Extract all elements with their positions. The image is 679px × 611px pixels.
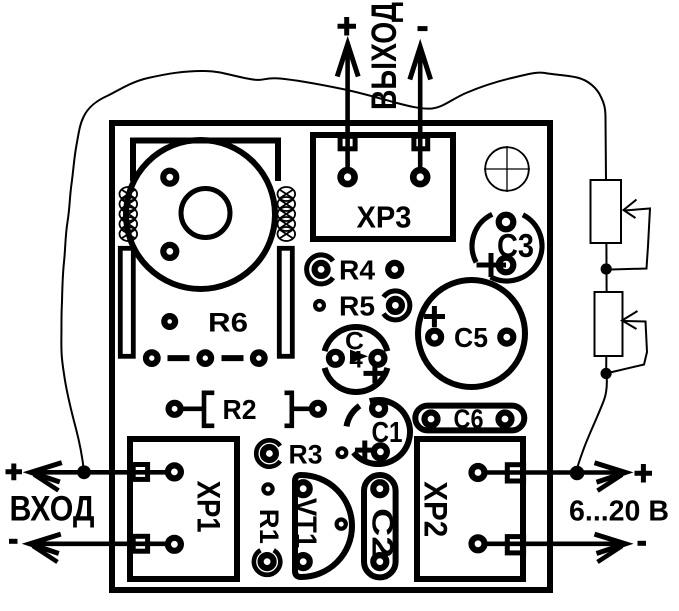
wire dash right [222,355,244,361]
rheostat (external trimmer) 1 [591,180,622,243]
XP3 pad 2 [413,170,427,184]
plus sign output [338,17,357,36]
R6 left leg [120,248,133,356]
C4 plus [364,365,386,384]
resistor R4 pad right [388,263,401,276]
R6 pad lower [163,245,176,258]
power - arrow [595,534,626,553]
node power + junction [570,466,585,481]
C3 pad bottom [499,258,514,273]
C1 pad top [372,402,385,415]
minus sign input [9,539,18,544]
resistor R5 pad right with ring [384,291,410,320]
capacitor C1 outline arcs [354,400,410,464]
capacitor C2 outline [364,475,396,577]
R6 wiper pad [164,316,175,327]
svg-text:R3: R3 [289,439,323,469]
C6 pad right [499,413,512,426]
input + wire [31,470,174,475]
C4 pad left [329,352,342,365]
R6 left spring contact (hatched) [120,187,138,241]
svg-text:XP1: XP1 [191,481,227,533]
XP3 pad 1 [341,170,355,184]
C3 plus [477,253,507,277]
minus sign power [638,541,647,546]
capacitor C5 outline [418,280,525,387]
C5 pad right [500,331,513,344]
capacitor C6 outline [415,406,524,431]
resistor R3 pad right [338,448,347,457]
power - wire [478,541,625,546]
input - arrow [30,534,61,553]
C3 pad top [499,215,514,230]
svg-text:R2: R2 [223,394,257,425]
C4 polarity arrow [350,350,368,363]
transistor VT1 outline [295,475,352,577]
R6 terminal pad row [146,352,158,364]
C5 plus [424,306,445,327]
svg-text:XP3: XP3 [357,200,412,235]
input - wire [30,541,174,546]
resistor R4 pad left with ring [307,255,333,284]
XP1 pin 1 square [133,465,147,480]
power + arrow [595,463,626,482]
svg-text:6...20 В: 6...20 В [569,496,669,528]
rheostat (external trimmer) 2 [595,292,623,356]
R2 bracket left [204,393,214,426]
R6 right leg [279,248,292,356]
svg-text:VT1: VT1 [289,498,322,548]
C6 pad left [425,413,438,426]
resistor R1 pad bottom with ring [254,550,280,575]
resistor R2 pad left [169,403,181,415]
XP2 pad 1 [472,466,485,479]
C5 pad left [428,331,441,344]
XP2 pad 2 [472,537,485,550]
svg-text:C2: C2 [366,508,399,558]
svg-text:C3: C3 [497,227,534,264]
mounting hole [484,146,530,192]
plus sign power [635,464,653,483]
minus sign output [418,26,428,31]
svg-text:C5: C5 [454,322,488,353]
rheostat 2 wiper arrow [622,311,638,329]
XP3 pin 1 square [340,136,355,149]
resistor R1 pad top [263,484,272,493]
R6 rotor circle [126,140,275,289]
wire [292,406,312,411]
connector XP2 [417,439,523,579]
svg-text:ВЫХОД: ВЫХОД [365,2,404,110]
XP2 pin 1 square [507,465,523,481]
wire between rheostats [605,243,607,292]
VT1 pad collector [337,520,346,529]
svg-text:C6: C6 [454,404,484,434]
wire dash left [168,355,190,361]
node input + junction [77,465,91,479]
resistor R2 pad right [312,403,324,415]
svg-text:R5: R5 [339,290,375,321]
output - wire with arrow [418,48,423,171]
R6 shaft hole [181,189,230,238]
R2 bracket right [285,393,292,426]
XP1 pad 2 [168,538,181,551]
connector XP1 [130,439,237,579]
connector XP3 [313,135,453,239]
VT1 pad base [297,482,310,495]
wire below rheostat 2 to power + [576,356,607,472]
svg-text:R4: R4 [339,254,375,285]
svg-text:XP2: XP2 [418,481,454,537]
XP1 pad 1 [168,465,181,478]
capacitor C3 outline arcs [491,215,542,281]
C4 pad right [371,352,384,365]
resistor R5 pad left [315,301,324,310]
rheostat 1 wiper arrow [624,200,637,219]
VT1 pad emitter [297,555,310,568]
input + arrow [31,463,62,482]
svg-text:ВХОД: ВХОД [10,490,95,529]
svg-text:R1: R1 [254,509,284,544]
plus sign input [6,464,23,481]
output + wire with arrow [345,45,350,171]
XP1 pin 2 square [133,536,147,551]
svg-text:R6: R6 [208,308,248,338]
XP3 pin 2 square [414,136,428,149]
C1 pad bottom [374,445,387,458]
capacitor C4 outline arcs [325,368,388,392]
board outline [112,123,550,590]
R6 right spring contact (hatched) [278,187,296,241]
R6 pad upper [163,171,176,184]
C1 plus [355,441,375,460]
node (junction dot) between rheostats [601,263,612,274]
node (junction dot) below rheostat 2 [601,368,612,379]
C2 pad top [373,482,386,495]
wire [181,406,203,411]
power + wire [478,470,625,475]
resistor R3 pad left with ring [256,440,280,466]
C2 pad bottom [373,555,386,568]
XP2 pin 2 square [507,537,523,553]
potentiometer R6 body bracket [133,141,278,182]
wire freehand loop from input + over the top to rheostats [61,71,606,472]
